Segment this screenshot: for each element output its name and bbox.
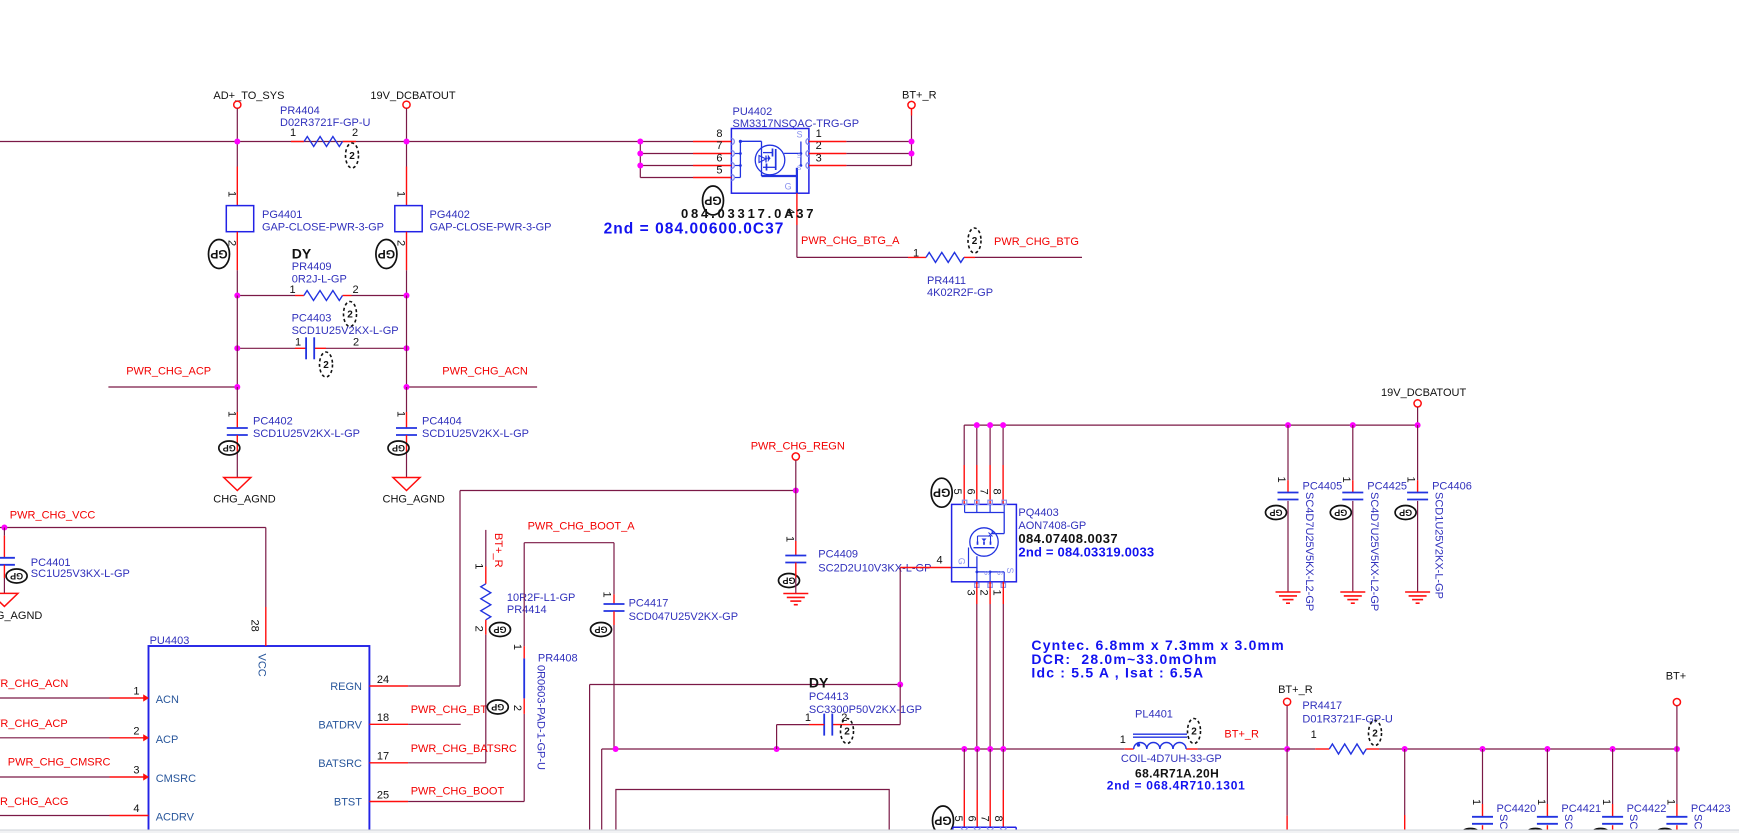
svg-text:PWR_CHG_BT: PWR_CHG_BT <box>411 704 488 716</box>
junction bus pin8 <box>637 139 643 145</box>
wire PU4402 pin6 h <box>640 165 693 167</box>
page bottom scrollbar strip <box>0 829 1739 831</box>
svg-text:5: 5 <box>716 165 722 177</box>
svg-text:5: 5 <box>951 488 963 494</box>
svg-text:28: 28 <box>249 620 261 632</box>
wire PG4402 pin1 stub <box>406 167 408 206</box>
svg-text:2: 2 <box>395 240 407 246</box>
svg-text:2: 2 <box>473 626 485 632</box>
wire PQ4404 pin7 stub <box>989 749 991 790</box>
svg-text:CHG_AGND: CHG_AGND <box>213 494 275 506</box>
junction 19V rail PC4405 <box>1285 422 1291 428</box>
stamp GP at PC4420 (clipped) <box>1460 829 1481 833</box>
svg-text:PU4402: PU4402 <box>733 106 773 118</box>
junction PC4417 at rail <box>613 746 619 752</box>
component PG4401 pin2 stub <box>236 232 238 271</box>
resistor PR4409 <box>304 291 343 301</box>
stamp GP at BATDRV label <box>487 700 508 714</box>
component PQ4404 box top <box>953 826 1016 828</box>
junction ACP <box>234 384 240 390</box>
svg-text:GAP-CLOSE-PWR-3-GP: GAP-CLOSE-PWR-3-GP <box>430 222 552 234</box>
rev stamp at PR4417 <box>1369 721 1382 746</box>
junction rail x1404 <box>1402 746 1408 752</box>
rev stamp at PR4409 <box>344 302 357 327</box>
wire PQ4404 pin6 stub <box>976 749 978 790</box>
junction rail pin2 <box>974 746 980 752</box>
ground under PC4425 <box>1340 591 1365 593</box>
stamp GP at PU4402 <box>703 186 724 215</box>
svg-text:PC4409: PC4409 <box>818 549 858 561</box>
svg-text:1: 1 <box>395 411 407 417</box>
wire PQ4403 pin7 vert <box>989 425 991 465</box>
terminal BT+_R (top) <box>908 101 915 108</box>
ground CHG_AGND under PC4402 <box>224 478 251 491</box>
svg-text:2: 2 <box>844 727 850 738</box>
wire PC4422 bottom <box>1612 825 1614 833</box>
junction BT+R pin1 <box>909 139 915 145</box>
resistor PR4417 pin stubs <box>1315 748 1329 750</box>
wire PC4401 bottom <box>3 565 5 578</box>
wire PQ4403 pin3 down <box>976 582 978 604</box>
stamp GP at PC4404 <box>388 441 409 455</box>
inductor PL4401 <box>1134 742 1147 749</box>
svg-text:2: 2 <box>352 127 358 139</box>
svg-text:2: 2 <box>511 705 523 711</box>
svg-text:2: 2 <box>323 360 329 371</box>
junction BT+R rail <box>1284 746 1290 752</box>
svg-text:1: 1 <box>1470 799 1482 805</box>
svg-text:PR4417: PR4417 <box>1302 700 1342 712</box>
junction rail at PC4421 <box>1544 746 1550 752</box>
component PG4401 box <box>226 206 253 232</box>
svg-text:GP: GP <box>594 625 607 635</box>
svg-text:2: 2 <box>977 589 989 595</box>
svg-text:8: 8 <box>990 488 1002 494</box>
ground CHG_AGND under PC4404 <box>393 478 420 491</box>
terminal PWR_CHG_REGN <box>792 453 799 460</box>
svg-text:1: 1 <box>1275 476 1287 482</box>
svg-text:COIL-4D7UH-33-GP: COIL-4D7UH-33-GP <box>1121 753 1222 765</box>
wire PWR_CHG_ACN <box>407 386 538 388</box>
wire PWR_CHG_CMSRC into pin CMSRC <box>0 776 110 778</box>
wire BT+ down <box>1676 706 1678 749</box>
stamp GP at PQ4403 <box>931 478 952 507</box>
svg-text:6: 6 <box>716 152 722 164</box>
svg-text:PWR_CHG_ACN: PWR_CHG_ACN <box>442 365 528 377</box>
wire PC4423 top <box>1676 749 1678 804</box>
svg-text:2: 2 <box>353 337 359 349</box>
junction PC4413 at rail <box>774 746 780 752</box>
junction 19V rail PC4425 <box>1350 422 1356 428</box>
svg-text:PL4401: PL4401 <box>1135 709 1173 721</box>
wire PC4409 top <box>795 491 797 542</box>
wire PU4402 pin5 h <box>640 177 693 179</box>
wire PR4417 to BT+ rail <box>1379 748 1677 750</box>
wire PG4402 to PR4409 rail <box>406 270 408 295</box>
component PU4402 internals <box>739 141 741 177</box>
svg-text:PR4414: PR4414 <box>507 604 547 616</box>
wire PC4423 bottom <box>1676 825 1678 833</box>
svg-text:GP: GP <box>491 702 504 712</box>
junction 19V rail pin7 <box>987 422 993 428</box>
component PG4402 box <box>395 206 422 232</box>
component PG4402 pin2 stub <box>406 232 408 271</box>
wire gate down left <box>589 685 591 833</box>
wire PQ4404 pin5 stub <box>963 749 965 790</box>
stamp GP at PC4425 <box>1330 506 1351 520</box>
wire BT+_R vertical <box>911 109 913 116</box>
terminal 19V_DCBATOUT (top) <box>403 101 410 108</box>
wire PQ4403 pin8 vert <box>1002 425 1004 465</box>
component PU4403 pin 18 stub <box>369 723 408 725</box>
svg-text:SC3300P50V2KX-1GP: SC3300P50V2KX-1GP <box>809 704 922 716</box>
component PU4403 pin 24 stub <box>369 685 408 687</box>
svg-text:PQ4403: PQ4403 <box>1018 507 1058 519</box>
stamp GP at PC4409 <box>779 574 800 588</box>
wire BT+R to PR4417 <box>1287 748 1315 750</box>
svg-text:GAP-CLOSE-PWR-3-GP: GAP-CLOSE-PWR-3-GP <box>262 222 384 234</box>
wire PC4425 bottom <box>1352 501 1354 592</box>
rev stamp at PL4401 <box>1188 719 1201 744</box>
svg-text:0R0603-PAD-1-GP-U: 0R0603-PAD-1-GP-U <box>535 665 547 770</box>
svg-text:PC4402: PC4402 <box>253 416 293 428</box>
svg-text:2nd = 068.4R710.1301: 2nd = 068.4R710.1301 <box>1107 779 1246 793</box>
svg-text:SC: SC <box>1691 814 1703 829</box>
capacitor PC4420 <box>1472 816 1493 818</box>
resistor PR4411 pin stubs <box>908 256 926 258</box>
svg-text:PWR_CHG_ACG: PWR_CHG_ACG <box>0 796 68 808</box>
wire PC4406 top <box>1417 425 1419 480</box>
svg-text:6: 6 <box>966 815 978 821</box>
wire PC4405 top <box>1287 425 1289 480</box>
svg-text:4: 4 <box>133 803 139 815</box>
junction bus pin7 <box>637 151 643 157</box>
capacitor PC4406 <box>1407 492 1428 494</box>
capacitor PC4409 <box>785 555 806 557</box>
svg-text:REGN: REGN <box>330 681 362 693</box>
svg-text:1: 1 <box>290 284 296 296</box>
svg-text:SCD047U25V2KX-GP: SCD047U25V2KX-GP <box>629 611 738 623</box>
svg-text:4: 4 <box>937 555 943 567</box>
stamp GP at PC4423 (clipped) <box>1654 829 1675 833</box>
svg-text:PWR_CHG_BOOT_A: PWR_CHG_BOOT_A <box>528 521 636 533</box>
capacitor PC4401 <box>0 557 15 559</box>
wire PU4402 pin2 <box>809 153 847 155</box>
svg-text:1: 1 <box>1664 799 1676 805</box>
svg-text:BATDRV: BATDRV <box>318 719 362 731</box>
wire PC4413 pin2 h <box>850 724 901 726</box>
svg-text:G: G <box>785 182 792 192</box>
svg-text:24: 24 <box>377 674 389 686</box>
capacitor PC4403 <box>305 337 307 359</box>
svg-text:19V_DCBATOUT: 19V_DCBATOUT <box>1381 387 1466 399</box>
svg-text:084.03317.0A37: 084.03317.0A37 <box>681 206 816 221</box>
component PQ4403 D letters <box>962 500 966 504</box>
wire PWR_CHG_ACP into pin ACP <box>0 737 110 739</box>
svg-text:1: 1 <box>601 591 613 597</box>
wire BOOT_A horizontal <box>524 542 614 544</box>
wire PR4408 up <box>523 543 525 646</box>
wire bottom loop <box>616 790 889 833</box>
svg-text:CHG_AGND: CHG_AGND <box>383 494 445 506</box>
wire PC4404 top <box>406 387 408 412</box>
svg-text:1: 1 <box>1405 476 1417 482</box>
wire gate horizontal <box>590 684 901 686</box>
wire BT+_R node down <box>1286 705 1288 749</box>
stamp GP at PR4414 <box>490 623 511 637</box>
svg-text:PC4405: PC4405 <box>1303 481 1343 493</box>
component PQ4404 pin bumps <box>961 827 967 830</box>
svg-text:17: 17 <box>377 751 389 763</box>
wire main rail y141 <box>0 141 693 143</box>
svg-text:S: S <box>797 153 802 160</box>
svg-text:1: 1 <box>1311 729 1317 741</box>
capacitor PC4423 <box>1666 816 1687 818</box>
wire PQ4403 pin2 down <box>989 582 991 604</box>
capacitor PC4402 <box>227 427 248 429</box>
wire PC4422 top <box>1612 749 1614 804</box>
svg-text:PC4403: PC4403 <box>292 313 332 325</box>
wire REGN vertical <box>459 491 461 687</box>
capacitor PC4422 <box>1602 816 1623 818</box>
capacitor PC4421 <box>1537 816 1558 818</box>
svg-text:SC2D2U10V3KX-L-GP: SC2D2U10V3KX-L-GP <box>818 563 931 575</box>
svg-text:BT+_R: BT+_R <box>902 90 937 102</box>
wire BATDRV <box>408 723 461 725</box>
svg-text:BT+_R: BT+_R <box>1224 729 1259 741</box>
wire PG4401 pin1 stub <box>236 167 238 206</box>
svg-text:GP: GP <box>10 571 23 581</box>
wire 19V branch 295-387 <box>406 296 408 388</box>
svg-text:7: 7 <box>979 815 991 821</box>
svg-text:2: 2 <box>349 151 355 162</box>
resistor PR4414 pin2 stub <box>485 620 487 635</box>
svg-text:PWR_CHG_BATSRC: PWR_CHG_BATSRC <box>411 743 517 755</box>
svg-text:ACDRV: ACDRV <box>156 812 195 824</box>
junction gate node <box>897 682 903 688</box>
wire PC4421 bottom <box>1546 825 1548 833</box>
wire AD+ branch 295-387 <box>236 296 238 388</box>
stamp GP at PG4401 <box>209 240 230 269</box>
svg-text:GP: GP <box>210 247 227 261</box>
svg-text:1: 1 <box>1535 799 1547 805</box>
svg-text:PWR_CHG_REGN: PWR_CHG_REGN <box>751 441 845 453</box>
stamp GP at PQ4404 <box>933 806 954 833</box>
svg-text:1: 1 <box>295 337 301 349</box>
junction rail at PC4420 <box>1480 746 1486 752</box>
capacitor PC4404 <box>396 427 417 429</box>
wire PWR_CHG_BTG_A <box>797 256 908 258</box>
svg-text:SC4D7U25V5KX-L2-GP: SC4D7U25V5KX-L2-GP <box>1303 492 1315 611</box>
resistor PR4414 pin1 stub <box>485 530 487 567</box>
svg-text:S: S <box>995 571 1002 576</box>
wire PC4409 bottom <box>795 563 797 579</box>
wire BTST up to PR4408 <box>523 714 525 802</box>
resistor PR4404 pin stubs <box>291 141 304 143</box>
svg-text:BT+_R: BT+_R <box>1278 684 1313 696</box>
resistor PR4417 <box>1329 744 1366 754</box>
wire PQ4403 pin4 run <box>900 567 951 569</box>
component PQ4403 box <box>952 504 1017 581</box>
junction main rail at AD+ <box>234 139 240 145</box>
svg-text:1: 1 <box>225 191 237 197</box>
wire PU4402 pin7 h <box>640 153 693 155</box>
junction 19V rail PC4406 <box>1415 422 1421 428</box>
inductor PL4401 pin stubs <box>1125 748 1134 750</box>
resistor PR4404 <box>304 137 342 147</box>
component PU4403 pin 25 stub <box>369 801 408 803</box>
svg-text:2nd = 084.00600.0C37: 2nd = 084.00600.0C37 <box>604 221 785 238</box>
transistor PU4402 mosfet symbol <box>755 145 785 175</box>
wire PQ4403 pin1 down <box>1002 582 1004 604</box>
wire bus vertical left of PU4402 <box>639 142 641 178</box>
svg-text:2: 2 <box>972 236 978 247</box>
transistor PQ4403 mosfet symbol <box>970 528 998 556</box>
wire PC4402 bottom <box>236 435 238 453</box>
svg-text:8: 8 <box>992 815 1004 821</box>
svg-text:GP: GP <box>392 443 405 453</box>
svg-text:PWR_CHG_VCC: PWR_CHG_VCC <box>10 510 96 522</box>
wire PC4420 bottom <box>1482 825 1484 833</box>
wire coil to BT+R node <box>1198 748 1288 750</box>
wire PU4402 pin1 <box>809 141 847 143</box>
svg-text:PWR_CHG_CMSRC: PWR_CHG_CMSRC <box>8 757 111 769</box>
svg-text:AD+_TO_SYS: AD+_TO_SYS <box>213 90 284 102</box>
wire PC4413 pin1 h <box>809 724 824 726</box>
svg-text:PWR_CHG_ACP: PWR_CHG_ACP <box>0 718 68 730</box>
wire PWR_CHG_VCC horizontal <box>0 527 266 529</box>
svg-text:BT+: BT+ <box>1666 671 1686 683</box>
component PQ4403 internals <box>964 504 966 512</box>
svg-text:GP: GP <box>493 625 506 635</box>
junction BT+R pin2 <box>909 151 915 157</box>
svg-text:2: 2 <box>1372 729 1378 740</box>
component PU4402 left pin bumps <box>731 139 734 145</box>
svg-text:G: G <box>957 558 967 565</box>
rev stamp at PR4411 <box>968 228 981 253</box>
terminal AD+_TO_SYS <box>234 101 241 108</box>
svg-text:GP: GP <box>934 814 951 828</box>
ground under PC4409 <box>783 593 808 595</box>
svg-text:PC4406: PC4406 <box>1432 481 1472 493</box>
wire PC4425 top <box>1352 425 1354 480</box>
svg-text:2: 2 <box>1191 727 1197 738</box>
junction rail pin1b <box>1000 746 1006 752</box>
component PU4403 box <box>149 646 370 833</box>
wire PWR_CHG_ACN into pin ACN <box>0 697 110 699</box>
wire BT+R below rail <box>1286 749 1288 816</box>
resistor PR4408 pin2 stub <box>523 698 525 714</box>
wire 19V top rail <box>964 424 1417 426</box>
svg-text:1: 1 <box>395 191 407 197</box>
stamp GP at PC4405 <box>1266 506 1287 520</box>
svg-text:1: 1 <box>1600 799 1612 805</box>
junction rail at PC4422 <box>1610 746 1616 752</box>
svg-text:6: 6 <box>964 488 976 494</box>
svg-text:2: 2 <box>133 725 139 737</box>
stamp GP at PC4406 <box>1395 506 1416 520</box>
junction bus pin6 <box>637 163 643 169</box>
svg-text:BATSRC: BATSRC <box>318 758 362 770</box>
wire PC4413 pin1 down <box>776 725 778 749</box>
wire PQ4403 pin5 vert <box>963 425 965 465</box>
svg-text:GP: GP <box>1334 508 1347 518</box>
svg-text:PR4409: PR4409 <box>292 261 332 273</box>
svg-text:PC4417: PC4417 <box>629 598 669 610</box>
wire PR4409 rail right <box>352 295 407 297</box>
svg-text:10R2F-L1-GP: 10R2F-L1-GP <box>507 592 575 604</box>
svg-text:GP: GP <box>933 486 950 500</box>
junction rail pin1 <box>987 746 993 752</box>
wire PC4403 rail left <box>237 347 295 349</box>
svg-text:PC4425: PC4425 <box>1367 481 1407 493</box>
wire PWR_CHG_VCC vertical <box>265 528 267 608</box>
svg-text:VCC: VCC <box>256 654 268 677</box>
svg-text:1: 1 <box>1120 734 1126 746</box>
svg-text:PWR_CHG_ACP: PWR_CHG_ACP <box>126 365 211 377</box>
resistor PR4408 pin1 stub <box>523 646 525 658</box>
wire PU4402 pin4 stub <box>796 193 798 225</box>
wire REGN to corner <box>408 685 460 687</box>
wire 19V node down <box>1417 407 1419 425</box>
wire PU4402 pin8 <box>693 141 731 143</box>
stamp GP at PC4401 <box>6 569 27 583</box>
svg-text:7: 7 <box>716 140 722 152</box>
wire AD+ vertical upper <box>236 108 238 166</box>
svg-text:1: 1 <box>783 536 795 542</box>
wire PG4401 to PR4409 rail <box>236 270 238 295</box>
wire PQ4403 pin6 vert <box>976 425 978 465</box>
svg-text:PWR_CHG_BTG: PWR_CHG_BTG <box>994 236 1079 248</box>
ground CHG_AGND under PC4401 <box>0 593 18 606</box>
capacitor PC4417 <box>604 603 625 605</box>
svg-text:PC4404: PC4404 <box>422 416 462 428</box>
stamp GP at PC4417 <box>591 623 612 637</box>
stamp GP at PC4421 (clipped) <box>1525 829 1546 833</box>
wire PU4402 pin3 <box>809 165 847 167</box>
svg-text:GP: GP <box>1399 508 1412 518</box>
wire PC4401 top <box>3 528 5 536</box>
svg-text:PG4401: PG4401 <box>262 209 302 221</box>
svg-text:3: 3 <box>964 589 976 595</box>
wire PC4421 top <box>1546 749 1548 804</box>
junction PC4403 rail right <box>404 345 410 351</box>
svg-text:2: 2 <box>353 284 359 296</box>
wire PC4404 bottom <box>406 435 408 453</box>
svg-text:SC: SC <box>1562 814 1574 829</box>
junction 19V rail pin6 <box>974 422 980 428</box>
svg-text:BT+_R: BT+_R <box>492 533 504 568</box>
wire PWR_CHG_REGN down <box>795 460 797 490</box>
svg-text:BTST: BTST <box>334 797 362 809</box>
svg-text:8: 8 <box>716 128 722 140</box>
svg-text:PC4413: PC4413 <box>809 691 849 703</box>
svg-text:SCD1U25V2KX-L-GP: SCD1U25V2KX-L-GP <box>422 428 529 440</box>
svg-text:1: 1 <box>290 127 296 139</box>
svg-text:0R2J-L-GP: 0R2J-L-GP <box>292 274 347 286</box>
wire 19V vertical upper <box>406 108 408 166</box>
wire BATSRC <box>408 762 486 764</box>
svg-text:SC: SC <box>1497 814 1509 829</box>
svg-text:GP: GP <box>223 443 236 453</box>
junction PR4409 rail left <box>234 293 240 299</box>
svg-text:GP: GP <box>378 247 395 261</box>
component PU4402 right pin bumps <box>806 139 809 145</box>
svg-text:GP: GP <box>1269 508 1282 518</box>
svg-text:S: S <box>797 165 802 172</box>
svg-text:1: 1 <box>991 589 1003 595</box>
junction PR4409 rail right <box>404 293 410 299</box>
